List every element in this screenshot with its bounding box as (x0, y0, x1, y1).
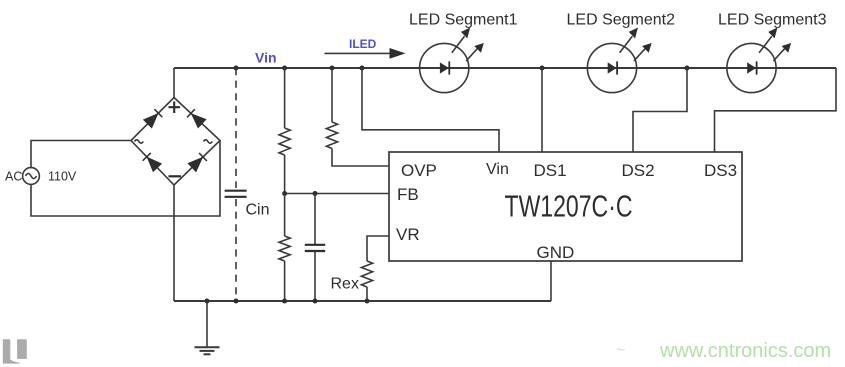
svg-text:~: ~ (616, 342, 625, 359)
svg-text:ILED: ILED (349, 37, 377, 51)
wire: bridge negative output down to ground rail (173, 185, 175, 301)
capacitor C2 (FB filter, FB to ground rail) (305, 194, 325, 302)
svg-text:OVP: OVP (401, 161, 437, 180)
ILED current arrow (325, 48, 406, 59)
node ground rail R3 (282, 299, 287, 304)
wire: AC loop top (source to bridge left vertex) (31, 141, 131, 168)
svg-text:DS1: DS1 (534, 161, 567, 180)
node ground rail Rex (365, 299, 370, 304)
wire: LED1/LED2 junction to DS1 pin (541, 68, 543, 152)
svg-text:FB: FB (397, 185, 419, 204)
LED segment 3 (LED3) (727, 29, 790, 92)
AC source 110V (23, 168, 40, 185)
LED segment 1 (LED1) (420, 29, 483, 92)
wire: AC loop bottom (source to bridge right vertex) (31, 141, 220, 217)
LED segment 2 (LED2) (587, 29, 650, 92)
node Vin (junction dot on top rail at Cin branch) (234, 66, 239, 71)
node junction top rail R2 (330, 66, 335, 71)
resistor Rex (VR to ground rail) (361, 261, 372, 301)
node FB divider junction (282, 191, 287, 196)
wire: LED3 cathode return to DS3 pin (715, 68, 837, 152)
node junction top rail Vin-pin branch (360, 66, 365, 71)
diode bridge top-left (144, 109, 162, 127)
diode bridge bottom-left (143, 153, 161, 171)
diode bridge top-right (187, 109, 205, 127)
svg-text:LED Segment2: LED Segment2 (567, 12, 676, 29)
ground (earth symbol) (195, 301, 220, 354)
svg-text:AC: AC (5, 170, 22, 184)
node FB capacitor junction (313, 191, 318, 196)
op-amp U1 TW1207C-C (controller IC body) (389, 152, 742, 261)
wire: bottom ground rail (174, 300, 551, 302)
label - (bridge negative) (169, 175, 182, 177)
svg-text:LED Segment1: LED Segment1 (409, 12, 518, 29)
node anode junction DS1 (540, 66, 545, 71)
node ground rail Cin (234, 299, 239, 304)
node ground rail / earth junction (205, 299, 210, 304)
svg-text:www.cntronics.com: www.cntronics.com (659, 340, 831, 362)
svg-text:Rex: Rex (331, 276, 359, 293)
wire: VR pin to Rex (367, 236, 389, 261)
svg-text:Vin: Vin (486, 161, 509, 178)
wire: GND pin to ground rail (550, 261, 552, 301)
resistor R3 (lower divider, FB to ground rail) (279, 194, 290, 302)
bridge rectifier (131, 98, 220, 186)
label ~ (bridge right AC input) (204, 140, 213, 143)
resistor R1 (upper divider, top rail to FB) (279, 68, 290, 194)
node anode junction DS2 (685, 66, 690, 71)
wire: top rail to Vin pin of U1 (362, 68, 499, 152)
resistor R2 (OVP sense, top rail to OVP pin) (326, 68, 389, 166)
svg-text:TW1207C·C: TW1207C·C (505, 190, 633, 224)
diode bridge bottom-right (189, 153, 207, 171)
wire: bridge output riser to top rail (173, 68, 175, 98)
svg-text:VR: VR (396, 225, 420, 244)
svg-text:Vin: Vin (255, 49, 277, 65)
logo (gray U mark bottom-left) (3, 339, 27, 363)
svg-text:Cin: Cin (246, 202, 270, 219)
wire: LED2/LED3 junction to DS2 pin (633, 68, 687, 152)
svg-text:GND: GND (537, 243, 575, 262)
wire: top rail Vin bus (174, 67, 836, 69)
svg-text:110V: 110V (48, 170, 77, 184)
wire: FB pin to divider node (285, 193, 389, 195)
node ground rail C2 (313, 299, 318, 304)
svg-text:DS3: DS3 (704, 161, 737, 180)
capacitor Cin (dashed leads) (225, 68, 247, 301)
svg-text:DS2: DS2 (622, 161, 655, 180)
label ~ (bridge left AC input) (135, 140, 144, 143)
label + (bridge positive) (169, 102, 181, 114)
node junction top rail R1 (282, 66, 287, 71)
svg-text:LED Segment3: LED Segment3 (718, 12, 827, 29)
